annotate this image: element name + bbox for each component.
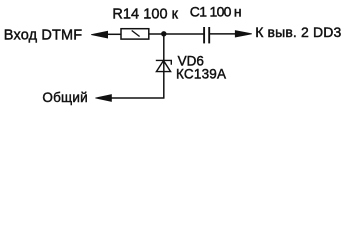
- resistor R14: [121, 29, 149, 39]
- svg-text:C1 100 н: C1 100 н: [190, 3, 241, 19]
- wire: junction down through VD6 to bottom corner: [163, 34, 165, 98]
- junction node at R14 / VD6 branch: [161, 31, 166, 36]
- terminal arrow: common: [95, 95, 111, 102]
- svg-text:К выв. 2 DD3: К выв. 2 DD3: [255, 24, 341, 40]
- wire: C1 to output arrow: [210, 33, 236, 35]
- svg-text:КС139А: КС139А: [176, 67, 226, 82]
- svg-text:R14 100 к: R14 100 к: [112, 7, 178, 23]
- terminal arrow: to pin 2 of DD3: [235, 31, 252, 37]
- zener diode VD6: [156, 60, 172, 71]
- wire: R14 to C1: [149, 33, 204, 35]
- svg-text:Вход DTMF: Вход DTMF: [4, 28, 82, 44]
- terminal arrow: DTMF input: [91, 31, 107, 38]
- wire: input arrow to R14: [107, 33, 122, 35]
- svg-text:Общий: Общий: [42, 90, 87, 105]
- wire: bottom horizontal to common arrow: [111, 97, 165, 99]
- capacitor C1: [204, 27, 209, 43]
